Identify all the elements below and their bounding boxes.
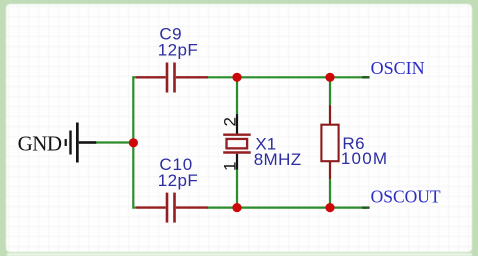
ground GND (18, 123, 97, 163)
wire crystal branch upper (236, 77, 238, 114)
junction GND node (129, 138, 138, 147)
svg-text:2: 2 (220, 117, 239, 126)
capacitor C9 (133, 63, 209, 93)
wire crystal branch lower (236, 169, 238, 208)
wire left vertical (132, 76, 134, 208)
wire bottom end tick (362, 206, 370, 209)
svg-text:GND: GND (18, 131, 62, 155)
svg-text:OSCIN: OSCIN (371, 58, 425, 78)
wire GND to node (96, 141, 134, 143)
svg-text:12pF: 12pF (158, 40, 198, 59)
svg-text:1: 1 (220, 162, 239, 171)
junction bottom right (325, 203, 334, 212)
junction top left (232, 73, 241, 82)
wire top horizontal (207, 76, 369, 78)
resistor R6 (321, 105, 338, 179)
wire resistor branch lower (329, 179, 331, 208)
svg-text:OSCOUT: OSCOUT (371, 187, 441, 207)
wire top end tick (362, 76, 370, 79)
svg-text:8MHZ: 8MHZ (254, 150, 302, 169)
wire resistor branch upper (329, 77, 331, 105)
junction bottom left (232, 203, 241, 212)
svg-text:12pF: 12pF (158, 171, 198, 190)
capacitor C10 (133, 193, 209, 223)
crystal X1 (223, 114, 251, 169)
wire bottom horizontal (207, 207, 369, 209)
svg-text:100M: 100M (341, 149, 388, 168)
junction top right (325, 73, 334, 82)
